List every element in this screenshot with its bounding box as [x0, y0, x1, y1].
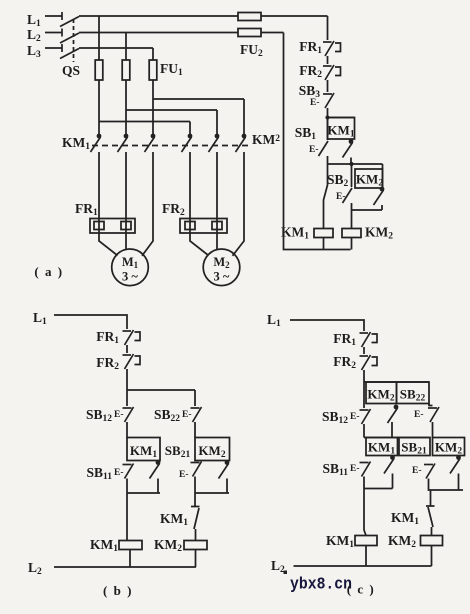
contactor KM1 aux label box — [328, 118, 355, 140]
thermal contact FR1 control — [323, 41, 341, 56]
wire L2 to control left rail — [261, 32, 284, 34]
wire SB21 bottom c — [429, 479, 430, 491]
pushbutton SB22 contact c — [429, 404, 433, 406]
wire KM2 interlock bottom c — [391, 422, 393, 438]
wire KM2 coil bottom b — [195, 550, 197, 568]
wire L2 c — [294, 565, 432, 567]
wire KM1 coil bottom — [323, 238, 325, 250]
svg-text:SB2: SB2 — [327, 172, 349, 189]
contactor KM2 aux label box — [355, 169, 383, 188]
motor M1 — [112, 249, 149, 286]
coil KM1 — [314, 229, 333, 238]
wire rail c seg1 — [363, 347, 365, 354]
svg-text:FR1: FR1 — [96, 329, 119, 346]
svg-text:FR2: FR2 — [299, 63, 322, 80]
wire rail c seg3 — [363, 424, 365, 438]
svg-text:KM1: KM1 — [62, 135, 90, 152]
wire rail seg2 — [327, 80, 329, 92]
wire rail c to coil — [364, 489, 366, 536]
svg-text:KM1: KM1 — [368, 440, 395, 457]
contactor KM2 interlock contact c — [388, 405, 399, 423]
node J1 — [325, 115, 329, 119]
interlock KM1 NC c wire — [430, 490, 432, 506]
contactor KM2 interlock box c — [366, 382, 397, 404]
wire KM2 pole3 down — [233, 152, 245, 256]
contactor KM1 main contact 3 — [145, 134, 156, 152]
wire KM2 coil bottom c — [431, 546, 433, 567]
svg-text:KM1: KM1 — [281, 225, 309, 242]
svg-text:KM1: KM1 — [327, 123, 354, 140]
svg-text:FR2: FR2 — [96, 355, 119, 372]
thermal contact FR1 b — [123, 330, 141, 345]
pushbutton SB21 contact c — [424, 464, 435, 479]
svg-text:E-: E- — [350, 412, 360, 422]
motor M2 — [203, 249, 240, 286]
svg-text:E-: E- — [179, 470, 189, 480]
contactor KM1 aux contact b — [150, 460, 161, 478]
wire rail b seg3 — [126, 422, 128, 438]
wire L2 bus — [79, 32, 238, 34]
wire branch to KM1 aux — [328, 117, 355, 119]
pushbutton SB21 b — [191, 462, 202, 477]
svg-text:KM1: KM1 — [391, 510, 419, 527]
svg-text:FR1: FR1 — [299, 39, 322, 56]
svg-text:FR1: FR1 — [75, 201, 98, 218]
svg-text:SB11: SB11 — [323, 461, 349, 478]
svg-text:QS: QS — [62, 63, 80, 78]
wire KM2 coil bottom — [351, 238, 353, 250]
fuse FU1 fuse 2 — [122, 60, 130, 80]
wire SB22 bottom c — [432, 422, 434, 438]
svg-text:KM2: KM2 — [365, 225, 393, 242]
svg-text:E-: E- — [309, 145, 319, 155]
interlock KM1 NC b — [191, 506, 200, 508]
svg-text:E-: E- — [114, 410, 124, 420]
svg-text:ybx8.cn: ybx8.cn — [290, 575, 352, 594]
wire rail b seg2 — [126, 369, 128, 406]
svg-text:FR2: FR2 — [333, 354, 356, 371]
wire control left rail — [284, 33, 351, 250]
coil KM1 c — [355, 536, 377, 546]
wire SB2 bottom — [351, 203, 353, 210]
svg-text:M2: M2 — [213, 255, 230, 270]
wire phase2 down — [125, 80, 127, 134]
thermal relay FR2 element 2 — [212, 222, 222, 230]
pushbutton SB22 box c — [397, 382, 430, 404]
wire rail seg4 — [327, 156, 329, 164]
wire rail c seg4 — [363, 477, 365, 489]
svg-text:3 ~: 3 ~ — [122, 270, 138, 284]
contactor KM2 main contact 3 — [236, 134, 247, 152]
coil KM2 b — [184, 541, 207, 550]
wire KM1 aux top — [350, 139, 352, 140]
switch QS pole 1 — [60, 12, 79, 27]
svg-text:L1: L1 — [33, 310, 47, 327]
wire L1 c — [290, 320, 364, 331]
contactor KM1 aux contact — [343, 139, 354, 157]
wire junction b right — [195, 492, 229, 494]
wire SB2 to KM2 coil — [351, 210, 353, 229]
switch QS pole 3 — [60, 44, 79, 59]
wire junction J2 — [328, 163, 383, 165]
wire KM1 aux bottom b — [157, 479, 159, 494]
svg-text:( b ): ( b ) — [103, 583, 133, 598]
wire L1 to control rail — [261, 15, 328, 17]
svg-text:( c ): ( c ) — [347, 582, 375, 597]
svg-text:KM1: KM1 — [130, 443, 157, 460]
svg-text:L2: L2 — [27, 27, 41, 44]
svg-text:SB21: SB21 — [165, 443, 191, 460]
wire SB22 bottom b — [194, 422, 196, 438]
thermal contact FR2 control — [323, 65, 341, 80]
svg-text:KM2: KM2 — [154, 537, 182, 554]
interlock KM1 NC b wire — [194, 493, 196, 506]
svg-text:3 ~: 3 ~ — [214, 270, 230, 284]
svg-text:KM2: KM2 — [198, 443, 225, 460]
wire phase3 branch to KM2 — [153, 99, 244, 134]
svg-text:KM2: KM2 — [367, 387, 394, 404]
wire KM2 aux bottom c — [458, 474, 460, 491]
wire phase1 branch to KM2 — [99, 122, 190, 135]
wire rail b seg1 — [126, 345, 128, 353]
thermal contact FR2 b — [123, 354, 141, 369]
wire phase3 down — [152, 80, 154, 134]
wire rail b to coil — [126, 493, 128, 541]
wire KM1 pole2 down — [125, 152, 127, 249]
wire phase2 branch to KM2 — [126, 110, 217, 134]
pushbutton SB12 b — [123, 407, 134, 422]
svg-text:KM1: KM1 — [90, 537, 118, 554]
pushbutton SB11 c — [360, 462, 371, 477]
wire KM2 pole2 down — [216, 152, 218, 249]
wire rail seg1 — [327, 56, 329, 64]
thermal relay FR1 element 2 — [121, 222, 131, 230]
contactor KM2 aux contact b — [219, 460, 230, 478]
svg-text:SB22: SB22 — [400, 387, 426, 404]
interlock KM1 NC c — [426, 505, 435, 507]
contactor KM1 aux contact c — [384, 455, 395, 473]
svg-text:KM2: KM2 — [388, 533, 416, 550]
svg-text:E-: E- — [414, 410, 424, 420]
fuse FU2 fuse 2 — [238, 29, 261, 37]
wire SB21 bottom b — [194, 477, 196, 494]
wire row1 top edge c — [364, 381, 429, 383]
wire junction c left — [364, 488, 393, 490]
wire row2 top edge c — [364, 437, 430, 439]
svg-text:KM1: KM1 — [160, 511, 188, 528]
wire junction b left — [127, 492, 160, 494]
wire KM2 aux bottom b — [226, 479, 228, 494]
wire phase1 down — [98, 80, 100, 134]
wire to KM2 coil b — [195, 529, 197, 541]
wire L1 b — [54, 315, 127, 329]
coil KM2 c — [421, 536, 443, 546]
wire phase3 tap — [152, 48, 154, 60]
svg-text:M1: M1 — [122, 255, 139, 270]
coil KM2 — [342, 229, 361, 238]
svg-text:SB12: SB12 — [322, 409, 348, 426]
svg-text:E-: E- — [412, 466, 422, 476]
wire to KM2 coil c — [431, 527, 433, 536]
wire L1 input — [45, 15, 62, 17]
contactor KM2 main contact 1 — [182, 134, 193, 152]
switch QS pole 2 — [60, 29, 79, 44]
contactor linkage dashed — [92, 145, 250, 147]
scan speck — [284, 571, 288, 575]
wire KM2 aux bottom — [381, 205, 383, 210]
fuse FU1 fuse 1 — [95, 60, 103, 80]
wire L3 input — [45, 47, 62, 49]
pushbutton SB2 — [343, 188, 353, 203]
svg-text:E-: E- — [310, 98, 320, 108]
wire phase1 tap — [98, 16, 100, 60]
svg-text:L3: L3 — [27, 43, 41, 60]
contactor KM2 aux contact — [374, 187, 385, 205]
svg-text:FU1: FU1 — [160, 61, 183, 78]
pushbutton SB12 c — [360, 409, 371, 424]
fuse FU1 fuse 3 — [149, 60, 157, 80]
svg-text:KM1: KM1 — [326, 533, 354, 550]
svg-text:L1: L1 — [267, 312, 281, 329]
svg-text:FR2: FR2 — [162, 201, 185, 218]
wire KM1 aux bottom — [350, 158, 352, 165]
contactor KM2 main contact 2 — [209, 134, 220, 152]
pushbutton SB2 branch wire — [351, 164, 353, 187]
svg-text:E-: E- — [336, 192, 346, 202]
wire KM1 pole1 down — [99, 152, 118, 256]
svg-text:SB1: SB1 — [295, 125, 317, 142]
svg-text:SB11: SB11 — [87, 465, 113, 482]
thermal relay FR1 element 1 — [94, 222, 104, 230]
wire KM1 pole3 down — [142, 152, 153, 256]
svg-text:SB12: SB12 — [86, 407, 112, 424]
wire KM1 coil bottom c — [365, 546, 367, 567]
pushbutton SB11 b — [123, 464, 134, 479]
wire KM2 pole1 down — [190, 152, 209, 256]
svg-text:E-: E- — [350, 464, 360, 474]
thermal relay FR2 element 1 — [185, 222, 195, 230]
wire L2 input — [45, 32, 62, 34]
contactor KM1 aux box b — [127, 438, 160, 461]
switch QS linkage — [73, 19, 75, 62]
pushbutton SB21 box c — [399, 438, 430, 456]
thermal relay FR1 heater box — [90, 219, 135, 234]
wire rail c seg2 — [363, 370, 365, 408]
wire KM1 aux bottom c — [392, 474, 394, 489]
contactor KM1 aux box c — [366, 438, 398, 456]
wire rail to KM1 coil — [324, 164, 328, 229]
thermal contact FR1 c — [360, 332, 378, 347]
contactor KM2 aux box b — [195, 438, 230, 461]
wire phase2 tap — [125, 33, 127, 61]
svg-text:E-: E- — [114, 468, 124, 478]
wire L3 bus — [79, 47, 153, 49]
contactor KM1 main contact 2 — [118, 134, 129, 152]
contactor KM1 main contact 1 — [91, 134, 102, 152]
wire junction c right — [430, 489, 464, 491]
wire KM1 coil bottom b — [129, 550, 131, 568]
wire L1 bus — [79, 15, 238, 17]
wire control right rail top — [327, 16, 329, 40]
contactor KM2 aux box c — [433, 438, 465, 456]
coil KM1 b — [119, 541, 142, 550]
wire KM2 aux top — [382, 164, 384, 187]
wire rail b seg4 — [126, 479, 128, 494]
svg-text:KM2: KM2 — [252, 132, 280, 147]
svg-text:E-: E- — [182, 410, 192, 420]
svg-text:L2: L2 — [271, 558, 285, 575]
pushbutton SB3 — [323, 93, 334, 108]
pushbutton SB1 — [319, 141, 329, 156]
svg-text:( a ): ( a ) — [34, 264, 63, 279]
pushbutton SB22 b — [191, 407, 202, 422]
contactor KM2 aux contact c — [450, 455, 461, 473]
wire junction J3 — [352, 209, 383, 211]
wire rail seg3 — [327, 108, 329, 140]
svg-text:KM2: KM2 — [356, 172, 383, 189]
svg-text:FU2: FU2 — [240, 42, 263, 59]
svg-text:FR1: FR1 — [333, 331, 356, 348]
svg-text:L2: L2 — [28, 560, 42, 577]
svg-text:SB21: SB21 — [401, 440, 427, 457]
thermal relay FR2 heater box — [180, 219, 227, 234]
svg-text:SB22: SB22 — [154, 407, 180, 424]
node J2 dot — [349, 162, 353, 166]
fuse FU2 fuse 1 — [238, 13, 261, 21]
thermal contact FR2 c — [360, 355, 378, 370]
wire L2 b — [54, 566, 196, 568]
wire branch b right — [127, 390, 195, 406]
svg-text:KM2: KM2 — [435, 440, 462, 457]
